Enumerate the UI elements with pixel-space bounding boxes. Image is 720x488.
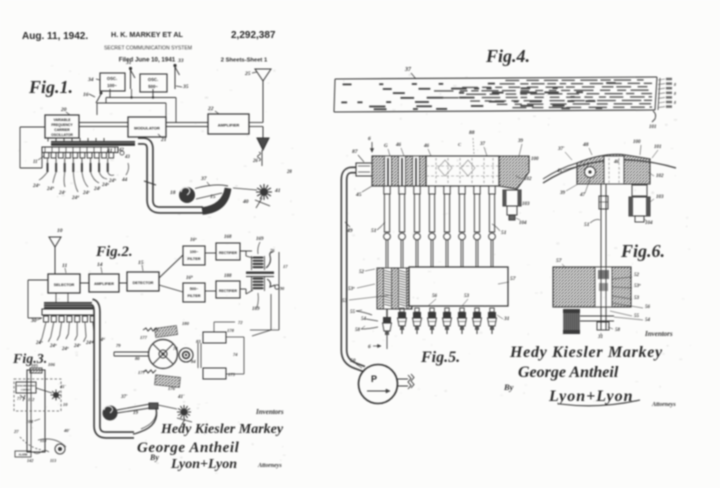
svg-text:175: 175 <box>228 372 236 377</box>
svg-text:84: 84 <box>191 359 196 364</box>
svg-text:105: 105 <box>31 363 39 368</box>
gear wheel 75 <box>149 340 178 369</box>
svg-text:142: 142 <box>27 458 33 463</box>
svg-text:55: 55 <box>634 314 640 319</box>
svg-text:24ᵇ: 24ᵇ <box>46 186 54 192</box>
svg-text:104: 104 <box>645 221 653 226</box>
svg-text:113: 113 <box>50 458 56 463</box>
ratchet hatched block bottom <box>155 375 181 388</box>
svg-text:102: 102 <box>524 177 532 182</box>
wire right side down <box>250 329 279 331</box>
svg-text:24ᶠ: 24ᶠ <box>93 186 101 192</box>
fig4 ribbon outline <box>335 77 657 79</box>
svg-text:56: 56 <box>645 305 651 310</box>
svg-text:45: 45 <box>355 192 362 198</box>
wire: vfo left feedback <box>20 126 45 128</box>
svg-text:37': 37' <box>120 395 128 400</box>
fig5 manifold block 57 <box>409 267 508 306</box>
fig5 plunger rods <box>384 194 389 232</box>
svg-text:53: 53 <box>342 299 348 304</box>
svg-text:Lyon+Lyon: Lyon+Lyon <box>548 388 633 405</box>
fig2 keys <box>44 316 49 322</box>
fig6 pivot circle <box>585 167 596 178</box>
svg-text:31: 31 <box>597 335 603 340</box>
fig3 bottom box <box>15 451 31 457</box>
svg-text:SECRET COMMUNICATION SYSTEM: SECRET COMMUNICATION SYSTEM <box>104 46 192 52</box>
svg-text:24ᵃ: 24ᵃ <box>49 344 57 349</box>
svg-text:52: 52 <box>634 273 640 278</box>
film spool 18 <box>179 187 195 203</box>
left knob 58 leader curves <box>356 311 372 315</box>
svg-text:37: 37 <box>404 67 412 73</box>
rod channel through block <box>595 267 612 307</box>
svg-text:102: 102 <box>656 174 664 179</box>
star wheel 41p <box>180 408 187 415</box>
svg-text:87: 87 <box>352 149 358 155</box>
svg-text:40: 40 <box>242 199 249 205</box>
wire rectifier to coil 169 <box>240 250 246 252</box>
selector box 11 <box>48 274 80 293</box>
wire wedge to starwheel <box>233 188 257 190</box>
svg-text:180: 180 <box>182 321 190 326</box>
relay contact lower <box>267 279 275 287</box>
wire contact to starwheel <box>36 388 52 393</box>
wire selector left feedback <box>28 279 48 281</box>
svg-text:54: 54 <box>645 318 651 323</box>
spring squiggle top 178 <box>143 328 158 331</box>
svg-text:16ᵃ: 16ᵃ <box>190 238 197 243</box>
svg-text:Inventors: Inventors <box>644 330 673 338</box>
svg-text:54: 54 <box>361 317 367 322</box>
ribbon record 41 (dark band) <box>51 141 135 146</box>
svg-text:FILTER: FILTER <box>187 257 200 261</box>
svg-text:Fig.5.: Fig.5. <box>420 349 460 366</box>
fig2 ribbon record (dark band) <box>44 302 94 309</box>
svg-text:53: 53 <box>464 294 470 299</box>
fig5 valve seats under header <box>384 186 390 194</box>
svg-text:100~: 100~ <box>190 250 199 254</box>
svg-text:100: 100 <box>531 157 539 162</box>
svg-text:19: 19 <box>133 411 139 416</box>
svg-text:31: 31 <box>503 316 510 322</box>
svg-text:80: 80 <box>135 356 140 361</box>
svg-text:24ᵃ: 24ᵃ <box>73 344 81 349</box>
fig5 header block: right hatched wedge <box>499 156 529 189</box>
svg-text:Hedy Kiesler Markey: Hedy Kiesler Markey <box>509 344 663 361</box>
svg-text:56: 56 <box>432 294 438 299</box>
wires vfo bottom to band <box>47 138 49 142</box>
wire selector-amplifier <box>80 282 89 284</box>
svg-text:FILTER: FILTER <box>187 294 200 298</box>
rod collar <box>599 196 608 209</box>
oscillator box 34 (OSC. 100~) <box>100 73 125 91</box>
svg-text:RECTIFIER: RECTIFIER <box>219 289 237 293</box>
svg-text:2 Sheets-Sheet 1: 2 Sheets-Sheet 1 <box>221 58 268 64</box>
wire filter-rectifier top <box>205 252 216 254</box>
tube conduit fig2 <box>92 302 134 435</box>
detector box 15 <box>127 272 159 291</box>
svg-text:16: 16 <box>83 92 89 98</box>
svg-text:57: 57 <box>510 276 516 282</box>
fig3 lower spool <box>55 444 65 454</box>
svg-text:41: 41 <box>106 148 113 154</box>
svg-text:ALARM: ALARM <box>19 454 28 457</box>
wire filter-rectifier bottom <box>205 290 216 292</box>
svg-text:44: 44 <box>121 177 128 183</box>
svg-text:20: 20 <box>60 107 67 113</box>
fig6 plunger rod <box>600 184 602 268</box>
svg-text:46: 46 <box>423 144 430 149</box>
fig3 dashed arc <box>38 439 66 447</box>
wire arm to starwheel fig2 <box>158 405 177 409</box>
scan noise speckle <box>189 180 192 182</box>
svg-text:George Antheil: George Antheil <box>518 364 619 381</box>
svg-text:14: 14 <box>97 262 103 268</box>
amplifier box 14 <box>89 274 119 292</box>
svg-text:100: 100 <box>633 140 641 145</box>
film curve to tube <box>133 408 157 434</box>
svg-text:24ᵃ: 24ᵃ <box>32 183 40 189</box>
fig3 vertical channel <box>27 370 45 452</box>
starwheel support <box>177 418 192 422</box>
svg-text:100~: 100~ <box>107 83 117 88</box>
svg-text:103: 103 <box>522 202 530 207</box>
svg-text:Fig.2.: Fig.2. <box>95 244 133 260</box>
svg-text:88: 88 <box>469 130 475 136</box>
svg-text:52: 52 <box>359 270 365 275</box>
svg-text:37': 37' <box>557 147 565 152</box>
svg-text:50: 50 <box>350 358 356 364</box>
svg-text:500~: 500~ <box>148 84 158 89</box>
fig6 cap middle light chamber <box>604 156 624 184</box>
svg-text:178: 178 <box>227 328 235 333</box>
svg-text:16ᵇ: 16ᵇ <box>186 275 193 281</box>
svg-text:P: P <box>371 374 377 384</box>
svg-text:46: 46 <box>395 143 402 148</box>
svg-text:37: 37 <box>200 176 207 182</box>
svg-text:SELECTOR: SELECTOR <box>54 283 75 287</box>
fig5 left supply pipe 49 <box>344 170 364 369</box>
svg-text:78: 78 <box>173 346 178 351</box>
clamp on tube <box>144 181 156 185</box>
svg-text:169: 169 <box>256 237 264 242</box>
knurled adjusting wheel <box>563 309 580 334</box>
fig5 left hatched spring block 52/53 <box>377 268 412 309</box>
fig4 right row labels <box>658 79 665 80</box>
fig3 dashed enclosure <box>14 379 61 411</box>
svg-text:Fig.1.: Fig.1. <box>28 77 73 97</box>
hammer bars <box>47 158 49 163</box>
fig2 contact fan <box>42 322 46 338</box>
fig5 spark plug row <box>400 308 404 312</box>
drive shaft <box>114 351 149 353</box>
rod pieces in channel <box>598 270 609 279</box>
rectifier box 188 <box>216 281 240 298</box>
svg-text:24ᵃ: 24ᵃ <box>61 347 69 352</box>
svg-text:17: 17 <box>283 264 288 269</box>
svg-text:104: 104 <box>26 419 34 424</box>
motor P <box>359 365 398 404</box>
svg-text:25: 25 <box>244 71 251 77</box>
fig5 right regulator 103 <box>503 190 521 206</box>
svg-text:500~: 500~ <box>190 287 199 291</box>
spring contact 26 <box>261 150 263 166</box>
wire vfo to modulator <box>79 122 128 124</box>
ratchet hatched block top <box>155 326 178 338</box>
tube conduit fig1 <box>138 141 203 210</box>
support lines under starwheel <box>255 200 270 206</box>
svg-text:49: 49 <box>346 228 353 234</box>
svg-text:103: 103 <box>656 195 664 200</box>
svg-text:106: 106 <box>48 362 56 367</box>
oscillator box 35 (OSC. 500~) <box>140 74 167 92</box>
relay lever 76 <box>266 252 273 268</box>
wire: osc bus <box>109 89 111 98</box>
contact fan leaders <box>39 172 48 180</box>
svg-text:176': 176' <box>168 386 177 391</box>
svg-text:58: 58 <box>615 328 621 333</box>
filter box 16b (500~) <box>183 283 205 302</box>
svg-text:6: 6 <box>368 136 371 142</box>
fig4 slot perforations <box>343 84 352 86</box>
svg-text:41': 41' <box>59 384 67 389</box>
svg-text:41': 41' <box>177 395 185 400</box>
contact keys row <box>44 153 49 159</box>
wire rectifier to coil 189 <box>240 288 246 290</box>
svg-text:48: 48 <box>582 142 589 148</box>
svg-text:G: G <box>384 144 388 149</box>
svg-text:18: 18 <box>170 190 176 196</box>
svg-text:30: 30 <box>30 318 37 324</box>
svg-text:51: 51 <box>501 230 507 236</box>
relay coil 169 <box>253 257 264 259</box>
wire modulator to amplifier <box>166 122 208 124</box>
svg-text:Lyon+Lyon: Lyon+Lyon <box>170 457 237 472</box>
svg-text:Aug. 11, 1942.: Aug. 11, 1942. <box>22 31 88 42</box>
star wheel 41 <box>260 188 268 196</box>
pinion gear 84 <box>179 348 193 362</box>
contact lines between solenoids <box>197 343 199 368</box>
svg-text:53ᵃ: 53ᵃ <box>634 284 641 289</box>
fig5 header block: left hatched <box>372 156 426 186</box>
svg-text:11: 11 <box>33 160 38 165</box>
svg-text:CONTACT: CONTACT <box>21 389 32 392</box>
label 101 fig4 <box>652 111 656 122</box>
rectifier box 168 <box>216 243 240 260</box>
svg-text:8: 8 <box>674 82 676 87</box>
svg-text:OSC.: OSC. <box>148 77 158 82</box>
svg-text:10: 10 <box>57 228 63 234</box>
leader lines top <box>388 149 390 156</box>
svg-text:Attorneys: Attorneys <box>651 402 676 408</box>
svg-text:8: 8 <box>674 100 676 105</box>
arm end block <box>149 403 158 409</box>
switch arm 31 on osc 34 <box>130 70 132 89</box>
fig3 bottom squiggles <box>33 451 49 454</box>
svg-text:53: 53 <box>634 296 640 301</box>
modulator box <box>128 117 166 137</box>
wire top solenoid up <box>213 322 215 332</box>
svg-text:8: 8 <box>674 91 676 96</box>
svg-text:Inventors: Inventors <box>255 408 284 416</box>
svg-text:101: 101 <box>649 125 657 130</box>
fig3 top cap <box>30 368 42 373</box>
svg-text:47: 47 <box>579 193 586 198</box>
svg-text:41: 41 <box>274 188 281 194</box>
svg-text:177': 177' <box>138 370 147 375</box>
svg-text:27: 27 <box>13 429 19 434</box>
svg-text:53ᵃ: 53ᵃ <box>348 287 355 292</box>
svg-text:MODULATOR: MODULATOR <box>134 126 160 131</box>
svg-text:31: 31 <box>125 60 132 66</box>
wires solenoid to right <box>226 336 244 338</box>
svg-text:2,292,387: 2,292,387 <box>231 30 276 41</box>
svg-text:By: By <box>149 453 159 462</box>
motor coupling <box>397 374 414 389</box>
svg-text:46: 46 <box>613 160 620 165</box>
solenoid box bottom 175 <box>203 368 226 379</box>
fig6 lower rod and bar <box>600 307 602 330</box>
svg-text:24ᵃ: 24ᵃ <box>85 341 93 346</box>
svg-text:55: 55 <box>350 310 356 315</box>
svg-text:43: 43 <box>124 155 130 160</box>
receiving antenna 10 <box>49 237 61 247</box>
wire selector down to keys <box>55 293 57 302</box>
svg-text:15: 15 <box>210 194 216 200</box>
svg-text:79: 79 <box>116 343 121 348</box>
armature bar 17 <box>246 272 274 274</box>
svg-text:39: 39 <box>517 139 524 144</box>
svg-text:177: 177 <box>140 335 148 340</box>
ground arrow below amplifier <box>257 138 269 150</box>
svg-text:51: 51 <box>584 222 590 228</box>
svg-text:Fig.4.: Fig.4. <box>485 46 530 66</box>
svg-text:28: 28 <box>286 170 292 175</box>
spring squiggle bottom <box>143 370 156 373</box>
svg-text:24ᵈ: 24ᵈ <box>71 195 79 201</box>
svg-text:21: 21 <box>160 137 167 143</box>
svg-text:SYNCHRONIZING: SYNCHRONIZING <box>17 386 36 388</box>
fig5 header block: middle chamber <box>426 156 499 186</box>
svg-text:76: 76 <box>270 248 275 253</box>
svg-text:AMPLIFIER: AMPLIFIER <box>94 282 114 286</box>
film arm fig2 <box>117 404 150 410</box>
svg-text:VARIABLE: VARIABLE <box>53 118 71 122</box>
svg-text:Attorneys: Attorneys <box>257 463 282 469</box>
fig2 key bar <box>42 309 98 315</box>
filter box 16a (100~) <box>183 246 205 265</box>
pipe fitting at header <box>356 163 372 176</box>
fig6 spring arc <box>543 160 676 183</box>
svg-text:24ᵍ: 24ᵍ <box>101 182 109 188</box>
svg-text:FREQUENCY: FREQUENCY <box>51 123 73 127</box>
switch arm 33 on osc 35 <box>174 67 176 89</box>
amplifier box 22 <box>208 114 249 134</box>
svg-text:RECTIFIER: RECTIFIER <box>219 251 237 255</box>
key bar row <box>42 147 118 153</box>
relay coil 189 <box>253 278 264 280</box>
svg-text:Fig.3.: Fig.3. <box>12 352 47 367</box>
svg-text:By: By <box>503 382 514 392</box>
svg-text:58: 58 <box>355 328 361 333</box>
antenna 25 <box>255 69 271 81</box>
svg-text:Hedy Kiesler Markey: Hedy Kiesler Markey <box>160 422 284 437</box>
svg-text:57: 57 <box>556 258 562 264</box>
svg-text:OSCILLATOR: OSCILLATOR <box>51 133 73 137</box>
svg-text:188: 188 <box>224 274 232 279</box>
svg-text:45: 45 <box>556 169 563 174</box>
svg-text:39: 39 <box>559 191 566 196</box>
wire amplifier to antenna <box>249 122 263 124</box>
svg-text:OSC.: OSC. <box>107 76 117 81</box>
svg-text:H. K. MARKEY ET AL: H. K. MARKEY ET AL <box>111 30 183 39</box>
svg-text:168: 168 <box>224 235 232 240</box>
svg-text:35: 35 <box>182 84 189 90</box>
fig3 starwheel 41pp <box>53 392 59 398</box>
switch contact 16 <box>96 94 101 103</box>
svg-text:AMPLIFIER: AMPLIFIER <box>218 123 240 128</box>
svg-text:104: 104 <box>519 221 527 226</box>
wire rectifier-coil top <box>240 250 252 252</box>
svg-text:24ᵃ: 24ᵃ <box>35 341 43 346</box>
svg-text:40': 40' <box>63 428 71 433</box>
variable frequency carrier oscillator box 20 <box>45 115 79 138</box>
right vertical wires <box>278 252 280 330</box>
svg-text:26: 26 <box>252 159 258 164</box>
fig2 film spool 19 <box>103 406 118 421</box>
svg-text:6: 6 <box>368 344 371 350</box>
wire amplifier-detector <box>119 282 127 284</box>
fig6 cap block hatched <box>577 154 650 184</box>
svg-text:Fig.6.: Fig.6. <box>620 241 665 261</box>
svg-text:37: 37 <box>479 142 486 147</box>
svg-text:24ʰ: 24ʰ <box>108 178 116 184</box>
svg-text:24ᵉ: 24ᵉ <box>82 190 90 196</box>
svg-text:112: 112 <box>28 397 35 402</box>
solenoid box top 178 <box>203 332 226 343</box>
svg-text:101: 101 <box>654 145 662 150</box>
svg-text:34: 34 <box>87 77 94 83</box>
svg-text:CARRIER: CARRIER <box>54 128 70 132</box>
svg-text:33: 33 <box>177 58 184 64</box>
wire detector to filters <box>159 255 183 278</box>
svg-text:189: 189 <box>252 307 260 312</box>
svg-text:DETECTOR: DETECTOR <box>133 281 154 285</box>
svg-text:83: 83 <box>196 339 201 344</box>
film guide bend 15 (dark tube end) <box>202 188 231 215</box>
synchronizing contact box <box>16 382 36 393</box>
fig6 block 57 hatched <box>553 267 631 307</box>
fig6 right widget 102 <box>632 185 647 196</box>
